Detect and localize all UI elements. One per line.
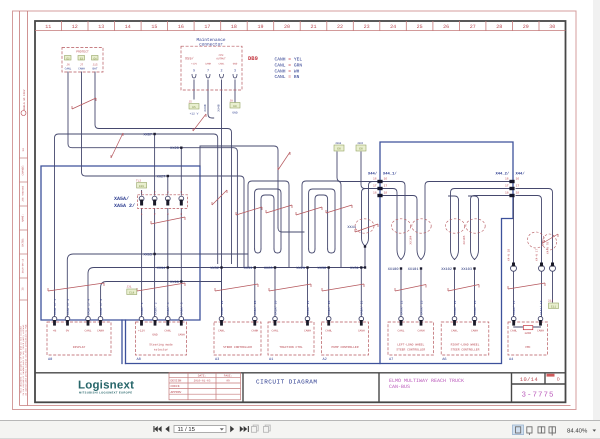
svg-text:CANH: CANH — [78, 68, 85, 71]
svg-text:CANL: CANL — [218, 330, 225, 333]
svg-text:23: 23 — [364, 24, 370, 30]
svg-text:Logisnext: Logisnext — [78, 380, 134, 392]
svg-text:CANL: CANL — [164, 330, 171, 333]
svg-text:DESIGN: DESIGN — [171, 380, 182, 383]
svg-text:11: 11 — [45, 24, 51, 30]
svg-text:+12V: +12V — [191, 63, 198, 66]
svg-text:STEER CONTROLLER: STEER CONTROLLER — [396, 349, 425, 352]
svg-text:CANH: CANH — [178, 334, 185, 337]
svg-text:211: 211 — [548, 300, 553, 303]
svg-text:J304: J304 — [335, 142, 342, 145]
svg-text:CANL = GRN: CANL = GRN — [275, 62, 303, 68]
svg-text:16: 16 — [373, 177, 377, 180]
svg-text:2019-09-13: 2019-09-13 — [22, 258, 25, 273]
svg-text:XX105: XX105 — [463, 235, 466, 244]
svg-text:ELMO MULTIWAY REACH TRUCK: ELMO MULTIWAY REACH TRUCK — [389, 378, 464, 384]
svg-text:XA5A 1/ 3: XA5A 1/ 3 — [99, 299, 103, 315]
svg-text:J302: J302 — [357, 142, 364, 145]
svg-text:CANL: CANL — [325, 330, 332, 333]
svg-text:17: 17 — [516, 184, 520, 187]
svg-text:28: 28 — [496, 24, 502, 30]
svg-text:NAME:: NAME: — [22, 214, 25, 222]
svg-text:DISPLAY: DISPLAY — [73, 346, 86, 349]
svg-text:3: 3 — [234, 69, 236, 74]
svg-text:XA3A/ 22: XA3A/ 22 — [220, 300, 224, 315]
svg-text:XA7A/ 23: XA7A/ 23 — [419, 300, 423, 315]
svg-text:XA5A 2/: XA5A 2/ — [114, 203, 135, 209]
svg-text:CANH: CANH — [205, 63, 212, 66]
svg-text:4: 4 — [167, 213, 169, 216]
svg-text:XA2A/ 20: XA2A/ 20 — [327, 300, 331, 315]
svg-text:GND: GND — [232, 112, 237, 115]
svg-text:APPROV: APPROV — [171, 391, 182, 394]
svg-text:XX103: XX103 — [461, 267, 472, 272]
svg-text:24: 24 — [390, 24, 396, 30]
svg-text:18: 18 — [516, 191, 520, 194]
svg-text:MITSUBISHI LOGISNEXT EUROPE: MITSUBISHI LOGISNEXT EUROPE — [79, 391, 132, 394]
svg-text:27: 27 — [470, 24, 476, 30]
svg-text:XA5A 1/ 1: XA5A 1/ 1 — [53, 299, 57, 315]
svg-text:Steering mode: Steering mode — [149, 343, 173, 347]
svg-text:XA8A/ 1: XA8A/ 1 — [140, 302, 144, 315]
svg-text:DB9: DB9 — [248, 55, 258, 62]
svg-text:X44/: X44/ — [516, 172, 526, 177]
svg-text:1: 1 — [141, 213, 143, 216]
svg-text:selector: selector — [154, 348, 169, 352]
svg-text:18: 18 — [373, 191, 377, 194]
svg-text:XX33: XX33 — [244, 266, 253, 271]
svg-text:GND: GND — [233, 63, 238, 66]
svg-text:12: 12 — [72, 24, 78, 30]
svg-text:XX32: XX32 — [210, 266, 219, 271]
svg-text:17: 17 — [505, 184, 509, 187]
svg-text:E15: E15 — [139, 185, 144, 188]
svg-text:3: 3 — [180, 191, 182, 194]
svg-text:1: 1 — [141, 191, 143, 194]
svg-text:XX101: XX101 — [408, 267, 419, 272]
svg-text:16: 16 — [505, 177, 509, 180]
svg-text:XX87: XX87 — [143, 132, 152, 137]
svg-text:IS: IS — [22, 287, 25, 291]
svg-text:18: 18 — [231, 24, 237, 30]
svg-text:X44/: X44/ — [368, 172, 378, 177]
svg-text:E2: E2 — [66, 58, 70, 61]
svg-text:2: 2 — [154, 213, 156, 216]
svg-text:18: 18 — [505, 191, 509, 194]
svg-text:30: 30 — [549, 24, 555, 30]
svg-text:2010-01-03: 2010-01-03 — [194, 380, 211, 383]
svg-text:26: 26 — [443, 24, 449, 30]
svg-text:A6: A6 — [442, 357, 446, 362]
svg-text:XA8A/ 3: XA8A/ 3 — [180, 302, 184, 315]
svg-text:RIGHT-LOAD WHEEL: RIGHT-LOAD WHEEL — [451, 344, 480, 347]
svg-text:16: 16 — [516, 177, 520, 180]
svg-text:XX31: XX31 — [350, 266, 359, 271]
svg-text:+12 V: +12 V — [190, 113, 199, 116]
svg-text:3: 3 — [180, 213, 182, 216]
svg-text:16: 16 — [384, 177, 388, 180]
svg-text:CHANGE:: CHANGE: — [22, 165, 25, 176]
svg-text:A8: A8 — [137, 357, 141, 362]
svg-text:XA4A/ 11: XA4A/ 11 — [512, 300, 516, 315]
svg-text:OUTPUT: OUTPUT — [216, 58, 226, 61]
svg-text:J15: J15 — [92, 64, 97, 67]
svg-text:20: 20 — [284, 24, 290, 30]
svg-text:XA8A/ 2: XA8A/ 2 — [153, 302, 157, 315]
svg-text:13: 13 — [98, 24, 104, 30]
svg-text:CANH: CANH — [537, 330, 544, 333]
svg-text:CANH = WH: CANH = WH — [275, 68, 300, 74]
svg-text:CANH = YEL: CANH = YEL — [275, 57, 303, 63]
svg-text:CANH: CANH — [471, 330, 478, 333]
svg-text:VMC: VMC — [525, 346, 531, 349]
svg-text:X4-N 78: X4-N 78 — [547, 242, 550, 254]
svg-text:15: 15 — [151, 24, 157, 30]
svg-text:22: 22 — [337, 24, 343, 30]
svg-text:PUMP CONTROLLER: PUMP CONTROLLER — [331, 346, 358, 349]
svg-text:0V: 0V — [66, 330, 70, 333]
svg-text:17: 17 — [373, 184, 377, 187]
svg-text:TRACTION CTRL: TRACTION CTRL — [279, 346, 303, 349]
svg-text:an authorized permit without w: an authorized permit without written per… — [25, 324, 28, 396]
svg-text:E5: E5 — [192, 106, 196, 109]
svg-text:CHECK: CHECK — [171, 385, 180, 388]
svg-text:A3: A3 — [215, 357, 219, 362]
svg-text:J5: J5 — [189, 101, 193, 104]
svg-text:A0: A0 — [48, 357, 52, 362]
svg-text:XA5A/: XA5A/ — [114, 196, 129, 202]
svg-text:120R: 120R — [524, 332, 531, 335]
svg-text:STEER CONTROLLER: STEER CONTROLLER — [451, 349, 480, 352]
svg-text:XX28: XX28 — [264, 266, 273, 271]
svg-text:XX27: XX27 — [157, 174, 166, 179]
svg-text:3-7775: 3-7775 — [521, 390, 554, 399]
svg-text:16: 16 — [178, 24, 184, 30]
svg-text:XX94: XX94 — [157, 266, 166, 271]
svg-text:X4-N 17: X4-N 17 — [536, 249, 539, 261]
svg-text:18: 18 — [384, 191, 388, 194]
svg-text:XA8A/ 4: XA8A/ 4 — [166, 302, 170, 315]
svg-text:X4-N 18: X4-N 18 — [508, 249, 511, 261]
svg-text:LEFT-LOAD WHEEL: LEFT-LOAD WHEEL — [397, 344, 424, 347]
svg-text:E8: E8 — [337, 148, 341, 151]
svg-text:CAN-BUS: CAN-BUS — [389, 384, 410, 390]
svg-text:CANL: CANL — [510, 330, 517, 333]
svg-text:E11: E11 — [551, 305, 556, 308]
svg-text:XA6A/ 22: XA6A/ 22 — [453, 300, 457, 315]
svg-text:CANH: CANH — [418, 330, 425, 333]
svg-text:STEER CONTROLLER: STEER CONTROLLER — [223, 346, 252, 349]
svg-text:CANH: CANH — [304, 330, 311, 333]
svg-text:XX30: XX30 — [318, 266, 327, 271]
svg-text:J8: J8 — [230, 100, 234, 103]
svg-text:X44_1/: X44_1/ — [383, 172, 397, 177]
svg-text:XA7A/ 22: XA7A/ 22 — [399, 300, 403, 315]
svg-text:PAGE:: PAGE: — [224, 374, 232, 377]
svg-text:CANL: CANL — [398, 330, 405, 333]
svg-text:XA3A/ 23: XA3A/ 23 — [253, 300, 257, 315]
svg-text:E8: E8 — [233, 105, 237, 108]
svg-text:BAT: BAT — [92, 68, 97, 71]
svg-text:X44_2/: X44_2/ — [496, 172, 510, 177]
svg-text:A2: A2 — [323, 357, 327, 362]
svg-text:E3: E3 — [80, 58, 84, 61]
svg-text:CANL: CANL — [85, 330, 92, 333]
svg-text:XX100: XX100 — [388, 267, 399, 272]
svg-text:25: 25 — [417, 24, 423, 30]
svg-text:E8: E8 — [359, 148, 363, 151]
svg-text:2: 2 — [220, 69, 222, 74]
svg-text:XA1A/ 21: XA1A/ 21 — [306, 300, 310, 315]
svg-text:DATE:: DATE: — [198, 374, 206, 377]
svg-text:XX29: XX29 — [296, 266, 305, 271]
svg-text:J31: J31 — [127, 286, 132, 289]
svg-text:CANL: CANL — [451, 330, 458, 333]
svg-text:XA5A 1/ 2: XA5A 1/ 2 — [66, 299, 70, 315]
svg-text:A4: A4 — [509, 357, 513, 362]
svg-text:XA4A/ 12: XA4A/ 12 — [539, 300, 543, 315]
svg-text:E18: E18 — [129, 291, 134, 294]
svg-text:PROTECT: PROTECT — [76, 51, 89, 54]
svg-text:10/14: 10/14 — [520, 377, 538, 383]
svg-text:29: 29 — [523, 24, 529, 30]
svg-text:19: 19 — [257, 24, 263, 30]
svg-text:XX95: XX95 — [143, 252, 152, 257]
svg-text:XX28: XX28 — [170, 146, 179, 151]
svg-text:E4: E4 — [93, 58, 97, 61]
svg-text:J7: J7 — [80, 64, 84, 67]
svg-text:CANH: CANH — [251, 330, 258, 333]
svg-text:DATED:: DATED: — [22, 237, 25, 246]
svg-text:XX48: XX48 — [218, 104, 221, 111]
svg-text:2: 2 — [154, 191, 156, 194]
svg-text:7: 7 — [207, 69, 209, 74]
svg-text:J6: J6 — [66, 64, 70, 67]
svg-text:X59/: X59/ — [185, 57, 194, 62]
svg-text:14: 14 — [125, 24, 131, 30]
svg-text:11 / 15: 11 / 15 — [178, 426, 195, 433]
svg-text:CANL: CANL — [65, 68, 72, 71]
svg-text:D: D — [557, 378, 560, 383]
svg-text:+B: +B — [53, 330, 57, 333]
svg-text:CANL: CANL — [272, 330, 279, 333]
svg-text:14: 14 — [22, 148, 25, 152]
svg-text:XA6A/ 23: XA6A/ 23 — [473, 300, 477, 315]
svg-text:XA5A 1/ 4: XA5A 1/ 4 — [86, 299, 90, 315]
svg-text:CANL = BN: CANL = BN — [275, 74, 300, 80]
svg-text:A1: A1 — [269, 357, 273, 362]
svg-text:+12V: +12V — [138, 330, 145, 333]
svg-text:A7: A7 — [389, 357, 393, 362]
svg-text:CANL: CANL — [218, 63, 225, 66]
svg-text:XX38: XX38 — [204, 104, 207, 111]
svg-text:21: 21 — [310, 24, 316, 30]
svg-text:4: 4 — [167, 191, 169, 194]
svg-text:TL2: TL2 — [136, 180, 141, 183]
svg-text:XA2A/ 21: XA2A/ 21 — [360, 300, 364, 315]
svg-text:17: 17 — [384, 184, 388, 187]
svg-text:CANH: CANH — [358, 330, 365, 333]
svg-text:84.40%: 84.40% — [567, 428, 588, 435]
svg-text:XX104: XX104 — [410, 235, 413, 244]
svg-text:connector: connector — [199, 42, 223, 47]
svg-text:NWKLA GO 15kV: NWKLA GO 15kV — [23, 89, 26, 110]
svg-text:J38 removed: J38 removed — [22, 186, 25, 202]
svg-text:09: 09 — [226, 380, 230, 383]
svg-text:17: 17 — [204, 24, 210, 30]
svg-text:XA1A/ 20: XA1A/ 20 — [273, 300, 277, 315]
svg-text:XX102: XX102 — [441, 267, 452, 272]
svg-text:GND: GND — [152, 334, 157, 337]
svg-text:CANH: CANH — [97, 330, 104, 333]
svg-text:9: 9 — [193, 69, 195, 74]
svg-text:CIRCUIT DIAGRAM: CIRCUIT DIAGRAM — [256, 378, 318, 385]
